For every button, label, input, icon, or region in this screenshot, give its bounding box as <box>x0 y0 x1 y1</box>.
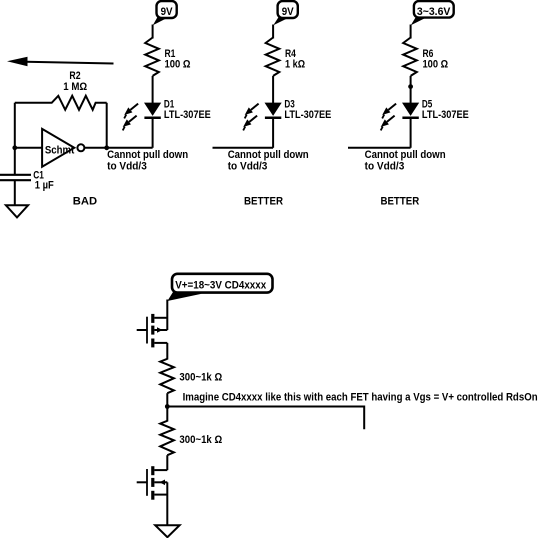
svg-text:1 kΩ: 1 kΩ <box>285 58 305 70</box>
node line circuit 2 <box>213 147 274 149</box>
wire: C1 to ground <box>14 180 16 205</box>
svg-text:BAD: BAD <box>73 195 97 207</box>
supply label 9V (circuit 1) <box>153 1 177 25</box>
svg-text:300~1k Ω: 300~1k Ω <box>179 371 222 383</box>
node line circuit 1 <box>107 147 153 149</box>
wire: callout to Q1 <box>166 300 168 331</box>
svg-text:300~1k Ω: 300~1k Ω <box>179 434 222 446</box>
svg-text:9V: 9V <box>161 6 174 18</box>
resistor 300~1k (lower) <box>160 421 222 455</box>
svg-text:1 MΩ: 1 MΩ <box>63 81 87 93</box>
wire: R2 left vertical to input node <box>14 103 16 175</box>
svg-text:LTL-307EE: LTL-307EE <box>422 109 469 121</box>
svg-text:to Vdd/3: to Vdd/3 <box>365 161 405 173</box>
light arrows D1 <box>123 104 138 131</box>
svg-text:BETTER: BETTER <box>244 195 283 207</box>
svg-text:Cannot pull down: Cannot pull down <box>107 149 188 161</box>
wire: D3 to node (circuit 2) <box>272 117 274 148</box>
wire: R upper to mid node <box>166 393 168 406</box>
wire: input node to Schmitt <box>15 147 42 149</box>
wire: R1 to D1 <box>152 76 154 103</box>
wire: R2 right vertical to output node <box>106 103 108 148</box>
supply label 9V (circuit 2) <box>273 1 298 25</box>
label: cannot pull down (circuit 3) <box>365 149 446 172</box>
wire: 3~3.6V to R6 <box>410 25 412 39</box>
node: output junction <box>104 145 109 150</box>
svg-text:Schmt: Schmt <box>45 144 75 156</box>
node line circuit 3 <box>348 147 411 149</box>
svg-text:LTL-307EE: LTL-307EE <box>284 109 331 121</box>
wire: 9V to R1 <box>152 25 154 39</box>
svg-text:BETTER: BETTER <box>381 195 420 207</box>
svg-text:Cannot pull down: Cannot pull down <box>228 149 309 161</box>
svg-text:9V: 9V <box>282 6 295 18</box>
wire: Q1 source to R (upper) <box>166 343 168 360</box>
svg-text:100 Ω: 100 Ω <box>165 58 191 70</box>
svg-text:to Vdd/3: to Vdd/3 <box>107 161 147 173</box>
wire: Schmitt output to node <box>84 147 106 149</box>
node: mid junction <box>165 404 170 409</box>
op-amp U1 Schmitt trigger <box>42 129 84 167</box>
svg-text:to Vdd/3: to Vdd/3 <box>228 161 268 173</box>
light arrows D3 <box>243 104 258 131</box>
transistor Q1 (PMOS) <box>137 314 168 348</box>
resistor 300~1k (upper) <box>160 359 222 393</box>
svg-text:100 Ω: 100 Ω <box>423 58 449 70</box>
LED D1 <box>144 99 211 121</box>
node dot (circuit 3) <box>408 84 413 89</box>
wire: D5 to node (circuit 3) <box>410 117 412 148</box>
supply label 3~3.6V (circuit 3) <box>411 1 454 25</box>
svg-text:Cannot pull down: Cannot pull down <box>365 149 446 161</box>
label: cannot pull down (circuit 1) <box>107 149 188 172</box>
wire: 9V to R4 <box>272 25 274 39</box>
supply callout V+=18~3V CD4xxxx <box>167 274 272 301</box>
arrow (top-left, pointing left) <box>7 57 114 67</box>
light arrows D5 <box>381 104 396 131</box>
wire: mid node to R (lower) <box>166 407 168 422</box>
svg-text:3~3.6V: 3~3.6V <box>417 6 451 18</box>
LED D3 <box>265 99 332 121</box>
wire: R6 to D5 <box>410 76 412 103</box>
ground (bottom) <box>155 525 179 537</box>
node: input junction <box>12 145 17 150</box>
LED D5 <box>402 99 469 121</box>
resistor R4 <box>266 38 306 76</box>
svg-text:Imagine CD4xxxx like this with: Imagine CD4xxxx like this with each FET … <box>183 392 538 404</box>
svg-text:V+=18~3V CD4xxxx: V+=18~3V CD4xxxx <box>175 280 266 292</box>
resistor R2 (feedback) <box>15 70 107 110</box>
ground (C1) <box>6 205 28 217</box>
wire: mid node stub to right <box>167 407 364 430</box>
svg-text:1 µF: 1 µF <box>35 179 54 191</box>
wire: R4 to D3 <box>272 76 274 103</box>
wire: R lower to Q2 drain <box>166 455 168 470</box>
resistor R6 <box>403 38 448 76</box>
svg-text:LTL-307EE: LTL-307EE <box>164 109 211 121</box>
wire: D1 to node (circuit 1) <box>152 117 154 148</box>
transistor Q2 (NMOS) <box>137 466 168 500</box>
wire: Q2 source to ground <box>166 482 168 525</box>
label: cannot pull down (circuit 2) <box>228 149 309 172</box>
capacitor C1 <box>0 169 54 191</box>
resistor R1 <box>145 38 191 76</box>
